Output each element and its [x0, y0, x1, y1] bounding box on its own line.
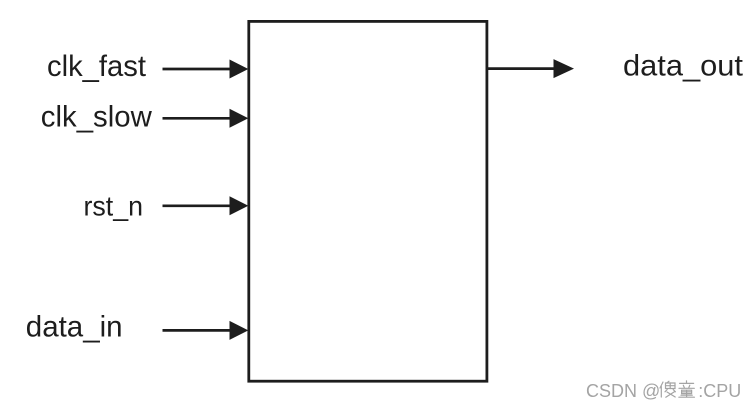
port label data_out	[623, 50, 744, 83]
wire data_out	[488, 59, 574, 78]
glyph 傻	[660, 381, 675, 397]
wire clk_fast	[163, 60, 249, 79]
svg-text:CSDN @: CSDN @	[586, 381, 660, 401]
svg-text:clk_fast: clk_fast	[47, 50, 147, 83]
port label clk_fast	[47, 50, 147, 83]
svg-text::CPU: :CPU	[698, 381, 741, 401]
port label rst_n	[84, 191, 144, 222]
glyph 童	[679, 381, 695, 397]
module block U1	[249, 21, 487, 381]
svg-text:clk_slow: clk_slow	[41, 100, 152, 133]
svg-text:data_in: data_in	[26, 311, 123, 344]
port label data_in	[26, 311, 123, 344]
wire rst_n	[163, 196, 249, 215]
svg-text:data_out: data_out	[623, 50, 744, 83]
svg-text:rst_n: rst_n	[84, 191, 144, 222]
watermark CSDN @傻童:CPU	[586, 381, 741, 401]
port label clk_slow	[41, 100, 152, 133]
wire data_in	[163, 321, 249, 340]
wire clk_slow	[163, 109, 249, 128]
